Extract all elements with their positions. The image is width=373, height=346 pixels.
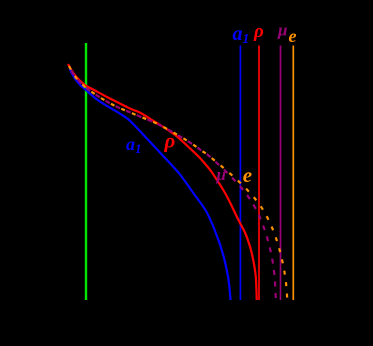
vertical line a1 (blue) bbox=[239, 46, 241, 301]
svg-text:μ: μ bbox=[277, 21, 287, 40]
vertical line e (orange) bbox=[292, 46, 294, 301]
curve e (orange dashed) bbox=[69, 66, 287, 300]
vertical line mu (purple) bbox=[280, 46, 282, 301]
svg-text:ρ: ρ bbox=[253, 21, 264, 42]
green vertical line (marker) bbox=[85, 43, 87, 300]
svg-text:ρ: ρ bbox=[164, 129, 176, 153]
curve mu (purple dashed) bbox=[69, 66, 276, 300]
curve rho (red) bbox=[68, 64, 257, 300]
vertical line rho (red) bbox=[258, 46, 260, 301]
svg-text:e: e bbox=[289, 26, 297, 46]
curve a1 (blue) bbox=[70, 69, 231, 301]
svg-text:μ: μ bbox=[216, 165, 226, 184]
svg-text:e: e bbox=[243, 163, 252, 187]
